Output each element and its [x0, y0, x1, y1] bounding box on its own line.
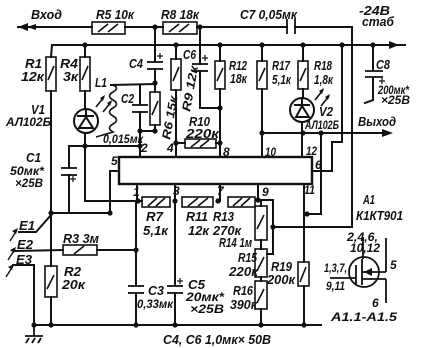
capacitor C3 [128, 286, 144, 293]
svg-text:4: 4 [166, 141, 174, 155]
wire R5 to R8 [125, 26, 163, 28]
wire pin11 up to output [304, 133, 321, 214]
node pin1 / R7 [135, 198, 140, 203]
wire C7 to bus [295, 27, 352, 227]
svg-text:18к: 18к [230, 71, 248, 86]
svg-text:С7 0,05мк: С7 0,05мк [240, 7, 298, 22]
node R2 / bottom bus [48, 322, 53, 327]
IC A1 body [119, 157, 312, 184]
wire E3 [13, 265, 34, 325]
svg-text:220к: 220к [185, 126, 221, 141]
wire C1 top [69, 146, 85, 167]
svg-text:Выход: Выход [358, 114, 396, 129]
svg-text:С8: С8 [376, 57, 391, 72]
svg-text:×25В: ×25В [15, 176, 43, 190]
bus supply arrow [389, 41, 399, 49]
wire C3 branch [135, 201, 137, 285]
svg-text:С3: С3 [148, 283, 165, 298]
svg-text:А1: А1 [362, 192, 375, 207]
wire feedback tap pin9 [258, 200, 273, 254]
capacitor C7 [287, 19, 295, 34]
node C2 / R6 wire [137, 128, 142, 133]
capacitor C1 [61, 168, 77, 182]
wire R6 [154, 83, 156, 92]
node bus / R17 [259, 42, 264, 47]
svg-text:6: 6 [372, 296, 379, 310]
wire R4 to V1 [84, 91, 86, 109]
E1 arrow [10, 228, 18, 241]
resistor R10 [185, 139, 216, 148]
node R10 / pin8 [217, 140, 222, 145]
wire output line [261, 132, 387, 134]
wire R10 right [216, 142, 220, 144]
svg-text:R15: R15 [238, 250, 258, 265]
svg-text:5: 5 [111, 154, 118, 168]
wire W2 V1 to pin2 [69, 145, 140, 147]
capacitor C6 [192, 55, 208, 71]
svg-text:200к: 200к [266, 272, 296, 287]
svg-text:R14 1м: R14 1м [219, 235, 252, 250]
wire pin6 [312, 45, 342, 171]
wire bottom bus [34, 324, 321, 326]
resistor R14 [255, 206, 267, 240]
svg-text:стаб: стаб [362, 14, 395, 29]
svg-text:12к: 12к [188, 223, 210, 238]
capacitor C4 [147, 53, 163, 69]
svg-text:R16: R16 [233, 283, 254, 298]
svg-text:1: 1 [133, 185, 140, 199]
E2 arrow [8, 247, 16, 260]
svg-text:А1.1-А1.5: А1.1-А1.5 [330, 310, 398, 324]
svg-text:С4, С6 1,0мк× 50В: С4, С6 1,0мк× 50В [163, 332, 271, 347]
node bus / R9 [173, 42, 178, 47]
wire pin11 to R19 [303, 214, 305, 262]
wire E1 [19, 215, 51, 232]
svg-text:10,12: 10,12 [350, 241, 380, 255]
svg-text:3: 3 [173, 184, 180, 198]
input arrow [18, 23, 36, 31]
wire pin9 drop [257, 184, 259, 200]
svg-text:1,8к: 1,8к [314, 72, 334, 87]
wire R4 stub [84, 45, 86, 57]
svg-text:6: 6 [315, 158, 322, 172]
wire pin11 [303, 184, 305, 214]
E3 arrow [6, 264, 14, 277]
LED V2 [290, 88, 330, 122]
wire R9 branch pin4 [175, 45, 177, 59]
node W2 / pin2 [137, 143, 142, 148]
node R6 bottom [152, 128, 157, 133]
node output / V2 [300, 130, 305, 135]
wire pin7 drop [219, 184, 221, 201]
svg-text:R7: R7 [146, 209, 164, 224]
node feedback tap [270, 224, 275, 229]
node R19 / bottom bus [301, 322, 306, 327]
svg-text:С1: С1 [26, 150, 41, 165]
resistor R17 [257, 61, 267, 89]
inductor L1 [96, 85, 117, 137]
node bus / R4 [82, 42, 87, 47]
svg-text:R17: R17 [272, 58, 291, 73]
svg-text:R13: R13 [213, 209, 235, 224]
wire C4 branch [154, 27, 156, 61]
resistor R5 [92, 22, 125, 34]
wire V1 to node [84, 133, 86, 201]
svg-text:5: 5 [390, 258, 397, 272]
svg-text:5,1к: 5,1к [272, 72, 292, 87]
svg-text:R8 18к: R8 18к [161, 7, 200, 22]
node R16 / bottom bus [258, 322, 263, 327]
wire pin1 drop [136, 184, 138, 201]
svg-text:10: 10 [265, 145, 276, 159]
svg-text:8: 8 [223, 145, 230, 159]
node pin3 / R7-R11 / C5 [172, 198, 177, 203]
svg-text:С2: С2 [121, 91, 135, 106]
resistor R11 [182, 197, 213, 207]
resistor R3 [63, 245, 97, 255]
node E1 / left bus [48, 210, 53, 215]
wire R10 left [176, 142, 185, 144]
svg-text:11: 11 [304, 183, 315, 197]
wire R17 branch pin10 [261, 45, 263, 61]
node bus / pin6 wire [339, 42, 344, 47]
resistor R6 [150, 92, 160, 125]
svg-text:V2: V2 [319, 104, 334, 119]
svg-text:АЛ102Б: АЛ102Б [5, 115, 51, 129]
svg-text:Е1: Е1 [19, 218, 35, 233]
resistor R4 [80, 57, 90, 91]
wire tap line y227 to output [273, 226, 352, 228]
wire C8 [372, 45, 374, 70]
svg-text:R18: R18 [314, 58, 333, 73]
resistor R12 [215, 61, 225, 89]
svg-text:390к: 390к [230, 297, 258, 312]
output arrow [382, 129, 393, 137]
node bus / C8 [370, 42, 375, 47]
wire R8 to C7 [197, 26, 287, 28]
wire R12 branch pin8 [219, 45, 221, 61]
resistor R15 [255, 249, 267, 277]
resistor R8 [163, 22, 197, 34]
svg-text:220к: 220к [228, 264, 259, 279]
wire node to R7 (pin1 line) [85, 200, 142, 202]
wire C6 branch [199, 27, 201, 64]
resistor R16 [255, 281, 267, 309]
resistor R19 [298, 262, 309, 286]
wire left bus R1 down [50, 91, 52, 266]
svg-text:1,3,7,: 1,3,7, [324, 261, 347, 275]
svg-text:С6: С6 [183, 47, 197, 62]
transistor inset A1.1-A1.5 [330, 237, 386, 303]
node bus / R18 [300, 42, 305, 47]
wire V2 to pin12 [301, 122, 303, 157]
svg-text:0,33мк: 0,33мк [137, 297, 174, 311]
resistor R9 [171, 59, 181, 90]
capacitor C8 [365, 71, 385, 84]
ground [25, 325, 43, 343]
svg-text:20к: 20к [61, 277, 87, 292]
capacitor C5 [167, 278, 183, 293]
svg-text:К1КТ901: К1КТ901 [356, 208, 403, 223]
wire R1 stub [51, 45, 52, 57]
wire R18 branch [302, 45, 304, 61]
node bus / R12 [217, 42, 222, 47]
svg-text:2: 2 [140, 141, 148, 155]
node V1 / W2 [82, 143, 87, 148]
svg-text:АЛ102Б: АЛ102Б [304, 118, 339, 132]
resistor R7 [142, 197, 170, 207]
svg-text:L1: L1 [95, 75, 107, 90]
node C4-R6 / W1 [152, 80, 157, 85]
svg-text:12к: 12к [21, 69, 46, 84]
resistor R2 [45, 266, 57, 297]
svg-text:9,11: 9,11 [326, 279, 345, 293]
wire C2 branch pin2 [139, 85, 141, 104]
node pin11 / R19 [304, 211, 309, 216]
wire R13 to R14 chain [260, 200, 262, 206]
svg-text:С4: С4 [129, 56, 144, 71]
resistor R18 [298, 61, 308, 89]
svg-text:R5 10к: R5 10к [96, 7, 135, 22]
svg-text:0,015мк: 0,015мк [103, 132, 144, 146]
resistor R13 [228, 197, 255, 207]
svg-text:×25В: ×25В [381, 93, 410, 107]
node output / pin10 [259, 130, 264, 135]
wire R3 right [97, 249, 136, 251]
wire R6 bottom to C2 [140, 130, 155, 132]
node output / pin11 riser [318, 130, 323, 135]
wire pin5 [69, 171, 119, 213]
node pin9 / R13-R14 [255, 197, 260, 202]
svg-text:Вход: Вход [31, 7, 62, 22]
svg-text:12: 12 [306, 144, 317, 158]
wire R2 bottom [50, 297, 52, 325]
wire input line [18, 26, 92, 28]
node pin5 / C1 [107, 210, 112, 215]
wire W1 L1 to C4 [111, 84, 155, 85]
svg-text:5,1к: 5,1к [143, 223, 169, 238]
svg-text:9: 9 [262, 185, 269, 199]
wire -24V bus [52, 44, 405, 46]
node R3 / C3 [133, 247, 138, 252]
node C6 / pin8 [217, 105, 222, 110]
wire C1 bottom [51, 175, 69, 213]
capacitor C2 [132, 105, 148, 112]
svg-text:Е2: Е2 [17, 237, 34, 252]
svg-text:Е3: Е3 [16, 252, 33, 267]
svg-text:×25В: ×25В [190, 302, 224, 316]
node pin4 / R10 [173, 140, 178, 145]
resistor R1 [46, 57, 56, 91]
wire pin3 drop / C5 branch [174, 184, 176, 285]
node pin7 / R11-R13 [215, 198, 220, 203]
node C3 / bottom bus [133, 322, 138, 327]
node E3 / ground [31, 322, 36, 327]
LED V1 [74, 95, 112, 133]
node R8-C7 / C6 [197, 24, 202, 29]
node C5 / bottom bus [172, 322, 177, 327]
node R5-R8 / C4 [152, 24, 157, 29]
svg-text:R3 3м: R3 3м [63, 231, 99, 246]
svg-text:3к: 3к [63, 69, 80, 84]
wire E2 [15, 250, 63, 251]
svg-text:R11: R11 [186, 209, 208, 224]
